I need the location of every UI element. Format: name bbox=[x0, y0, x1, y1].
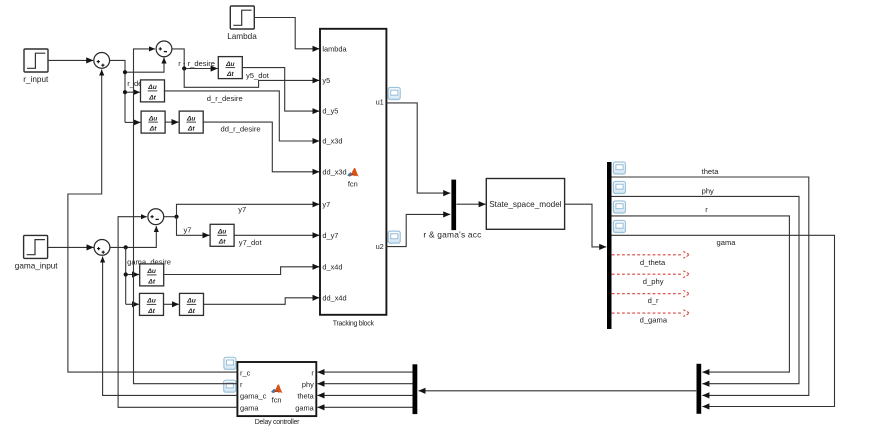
wire theta to mux M2 bbox=[612, 177, 809, 395]
logging badge on u1 bbox=[388, 88, 400, 100]
wire d_r_desire to Tracking d_x3d bbox=[164, 91, 319, 141]
wire sum2 output r - r_desire trunk bbox=[172, 49, 185, 69]
svg-text:d_theta: d_theta bbox=[640, 258, 666, 267]
wire sum1 output r_desire trunk bbox=[110, 60, 125, 122]
svg-text:d_r: d_r bbox=[648, 296, 659, 305]
wire d_theta dangling bbox=[612, 251, 690, 258]
wire y7_dot to Tracking d_y7 bbox=[234, 234, 319, 236]
svg-text:y7: y7 bbox=[322, 200, 330, 209]
fcn badge of Delay controller bbox=[271, 384, 283, 404]
fcn badge of Tracking block bbox=[347, 168, 359, 189]
label d_phy bbox=[643, 277, 664, 286]
wire y7 into derivative D5 bbox=[177, 217, 210, 236]
node junction y7 bbox=[174, 215, 178, 219]
wire demux DM2 phy to Delay controller bbox=[318, 383, 413, 385]
svg-text:gama: gama bbox=[240, 403, 259, 412]
wire d_phy dangling bbox=[612, 271, 690, 278]
label y7 lower bbox=[184, 225, 192, 234]
sum S3 (gama_input + gama_c) bbox=[94, 240, 110, 256]
svg-text:lambda: lambda bbox=[322, 44, 347, 53]
wire d_gama_desire to Tracking d_x4d bbox=[164, 267, 320, 275]
demux DM1 bbox=[607, 162, 612, 329]
wire demux DM2 theta to Delay controller bbox=[318, 394, 413, 396]
label theta bbox=[702, 167, 720, 176]
wire gama_desire drop bbox=[125, 247, 127, 304]
wire branch into derivative D6 bbox=[126, 274, 139, 276]
svg-text:State_space_model: State_space_model bbox=[489, 200, 562, 209]
svg-text:d_x3d: d_x3d bbox=[322, 137, 342, 146]
wire y5_dot to Tracking d_y5 bbox=[242, 68, 319, 112]
svg-text:y7: y7 bbox=[238, 205, 246, 214]
svg-text:y7_dot: y7_dot bbox=[239, 238, 263, 247]
wire demux DM2 r to Delay controller bbox=[318, 371, 413, 373]
logging badge on phy bbox=[613, 182, 625, 194]
svg-text:d_phy: d_phy bbox=[643, 277, 664, 286]
label d_gama bbox=[640, 315, 668, 324]
subsystem U1 Tracking block bbox=[320, 29, 386, 328]
wire gama_input to sum3 bbox=[48, 246, 94, 248]
demux DM2 bbox=[413, 364, 418, 414]
label d_r bbox=[648, 296, 659, 305]
label gama_desire bbox=[127, 257, 171, 266]
sum S4 (gama - gama_desire) bbox=[148, 209, 164, 225]
svg-text:d_y7: d_y7 bbox=[322, 231, 338, 240]
wire branch into derivative D3 bbox=[125, 121, 140, 123]
wire into derivative D1 bbox=[184, 68, 217, 70]
svg-text:d_y5: d_y5 bbox=[322, 107, 338, 116]
svg-text:y5: y5 bbox=[322, 76, 330, 85]
node junction r - r_desire bbox=[182, 66, 186, 70]
svg-text:gama_c: gama_c bbox=[240, 392, 267, 401]
svg-text:r & gama's acc: r & gama's acc bbox=[423, 230, 481, 240]
wire Lambda to Tracking lambda input bbox=[254, 18, 319, 49]
svg-text:r_c: r_c bbox=[240, 368, 251, 377]
derivative D2 bbox=[141, 80, 165, 102]
step source Lambda bbox=[227, 6, 257, 41]
label d_theta bbox=[640, 258, 666, 267]
label d_r_desire bbox=[207, 94, 243, 103]
derivative D6 bbox=[140, 264, 164, 286]
wire mux M1 to State_space_model bbox=[456, 203, 485, 205]
sum S1 (r_input + r_c) bbox=[94, 53, 110, 69]
svg-text:Tracking block: Tracking block bbox=[333, 320, 375, 327]
label r - r_desire bbox=[178, 59, 215, 68]
wire phy to mux M2 bbox=[612, 196, 800, 383]
node junction r_desire lower bbox=[123, 90, 127, 94]
wire u2 to mux M1 bbox=[386, 214, 450, 246]
svg-text:u1: u1 bbox=[376, 97, 384, 106]
svg-text:dd_x3d: dd_x3d bbox=[322, 167, 346, 176]
step source r_input bbox=[23, 49, 49, 84]
derivative D7 bbox=[140, 293, 164, 315]
label y7_dot bbox=[239, 238, 263, 247]
sum S2 (r - r_desire) bbox=[156, 41, 172, 57]
node junction gama_desire upper bbox=[124, 245, 128, 249]
derivative D4 bbox=[179, 111, 203, 133]
svg-text:r_input: r_input bbox=[23, 75, 49, 84]
logging badge on r_c bbox=[224, 357, 236, 369]
wire branch into derivative D2 bbox=[125, 91, 140, 93]
svg-text:Delay controller: Delay controller bbox=[255, 419, 300, 426]
wire sum4 output y7 trunk bbox=[164, 216, 177, 218]
derivative D5 bbox=[210, 224, 234, 246]
svg-text:gama: gama bbox=[295, 403, 314, 412]
subsystem State_space_model bbox=[486, 179, 564, 230]
wire dd_r_desire to Tracking dd_x3d bbox=[203, 122, 319, 172]
wire branch into derivative D7 bbox=[126, 303, 139, 305]
svg-text:u2: u2 bbox=[376, 242, 384, 251]
wire d_r dangling bbox=[612, 290, 690, 297]
node junction gama_desire lower bbox=[124, 272, 128, 276]
logging badge on u2 bbox=[388, 231, 400, 243]
wire r feedback to sum S2 bbox=[134, 49, 238, 384]
svg-text:theta: theta bbox=[702, 167, 720, 176]
wire d_gama dangling bbox=[612, 310, 690, 317]
wire r to mux M2 bbox=[612, 216, 790, 372]
derivative D1 bbox=[218, 57, 242, 79]
svg-text:phy: phy bbox=[702, 187, 714, 196]
svg-text:d_x4d: d_x4d bbox=[322, 262, 342, 271]
wire y5 to Tracking bbox=[184, 69, 319, 88]
wire r_input to sum1 bbox=[48, 59, 93, 61]
derivative D3 bbox=[141, 111, 165, 133]
svg-text:dd_r_desire: dd_r_desire bbox=[221, 125, 261, 134]
wire gama feedback to sum S4 bbox=[118, 217, 237, 408]
logging badge on gama bbox=[613, 221, 625, 233]
mux M1 bbox=[451, 180, 456, 231]
wire dd_gama_desire to Tracking dd_x4d bbox=[204, 298, 320, 305]
svg-text:fcn: fcn bbox=[272, 395, 282, 404]
node junction r_desire upper bbox=[123, 70, 127, 74]
wire gama_c feedback to sum S3 bbox=[103, 257, 238, 396]
svg-text:r: r bbox=[705, 205, 708, 214]
wire demux DM2 gama to Delay controller bbox=[318, 406, 413, 408]
label gama bbox=[717, 238, 737, 247]
logging badge on theta bbox=[613, 162, 625, 174]
svg-text:gama: gama bbox=[717, 238, 737, 247]
wire D3 to D4 bbox=[165, 121, 178, 123]
label r & gama's acc bbox=[423, 230, 481, 240]
wire gama to mux M2 bbox=[612, 235, 835, 406]
svg-text:d_gama: d_gama bbox=[640, 315, 668, 324]
svg-text:Lambda: Lambda bbox=[227, 32, 257, 41]
label phy bbox=[702, 187, 714, 196]
svg-text:d_r_desire: d_r_desire bbox=[207, 94, 243, 103]
label y7 upper bbox=[238, 205, 246, 214]
logging badge on r bbox=[613, 201, 625, 213]
wire State_space_model to demux DM1 bbox=[565, 204, 607, 247]
wire y7 to Tracking bbox=[177, 204, 320, 216]
svg-text:gama_input: gama_input bbox=[15, 261, 59, 270]
label r_desire bbox=[127, 79, 154, 88]
mux M2 bbox=[697, 364, 702, 414]
wire r_c feedback to sum S1 bbox=[68, 70, 238, 373]
svg-text:theta: theta bbox=[297, 392, 314, 401]
wire sum3 output gama_desire trunk bbox=[110, 226, 156, 247]
logging badge on delay r bbox=[224, 380, 236, 392]
label y5_dot bbox=[246, 71, 270, 80]
step source gama_input bbox=[15, 235, 59, 270]
label r bbox=[705, 205, 708, 214]
wire mux M2 to demux DM2 bbox=[419, 390, 697, 392]
wire branch to sum2 minus input bbox=[125, 58, 164, 73]
svg-text:dd_x4d: dd_x4d bbox=[322, 293, 346, 302]
svg-text:y5_dot: y5_dot bbox=[246, 71, 270, 80]
label dd_r_desire bbox=[221, 125, 261, 134]
svg-text:y7: y7 bbox=[184, 225, 192, 234]
svg-text:fcn: fcn bbox=[348, 179, 358, 188]
subsystem Delay controller bbox=[237, 362, 316, 426]
wire D7 to D8 bbox=[164, 303, 179, 305]
svg-text:phy: phy bbox=[302, 380, 314, 389]
derivative D8 bbox=[180, 293, 204, 315]
wire u1 to mux M1 bbox=[386, 103, 450, 193]
